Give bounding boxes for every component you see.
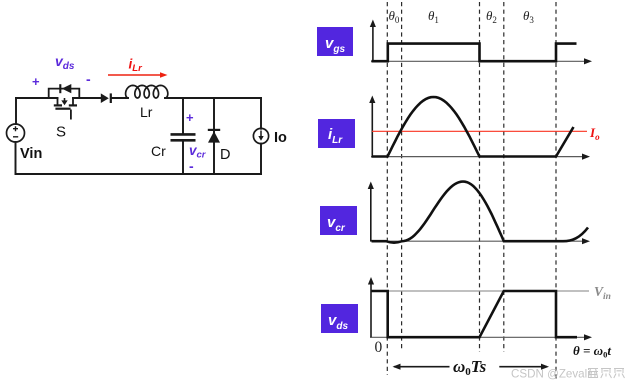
svg-text:-: -	[189, 158, 194, 174]
omega0 Ts left arrow	[393, 364, 450, 370]
MOSFET S source stub	[72, 98, 74, 105]
wire top-left from Vin to MOSFET	[16, 97, 58, 99]
wire inductor to node A	[165, 97, 261, 99]
svg-text:+: +	[186, 110, 194, 125]
svg-text:CSDN @Zevalin: CSDN @Zevalin	[511, 368, 596, 381]
v_ds y-axis arrowhead	[368, 277, 374, 285]
series diode cathode bar	[110, 93, 112, 103]
current source Io arrow	[258, 131, 263, 141]
capacitor Cr plates	[171, 134, 196, 140]
svg-text:θ = ω0t: θ = ω0t	[573, 343, 611, 360]
gray line Vin level	[372, 290, 589, 292]
svg-text:iLr: iLr	[129, 57, 144, 75]
MOSFET S drain stub	[54, 98, 77, 120]
v_cr y-axis arrowhead	[368, 182, 374, 190]
red line Io level	[372, 130, 587, 132]
wire current source Io top lead	[260, 98, 262, 129]
wire current source Io bottom lead	[260, 144, 262, 174]
v_cr x-axis	[370, 240, 583, 242]
svg-text:θ1: θ1	[428, 8, 439, 25]
svg-text:θ3: θ3	[523, 8, 534, 25]
v_ds x-axis arrowhead	[584, 334, 592, 340]
watermark CJK glyph blobs	[588, 369, 625, 379]
body diode triangle (points left)	[62, 84, 72, 93]
diode D triangle (points up)	[208, 131, 220, 142]
svg-text:S: S	[56, 124, 66, 141]
series diode triangle	[101, 93, 109, 103]
dashed line 2 (theta0 end)	[401, 2, 403, 351]
v_gs label box	[317, 27, 353, 56]
v_gs y-axis	[372, 26, 374, 61]
v_cr label box	[320, 206, 357, 235]
svg-text:Lr: Lr	[140, 104, 153, 120]
diode D cathode bar	[208, 129, 220, 131]
MOSFET body diode branch wire	[49, 89, 80, 98]
svg-text:θ0: θ0	[389, 8, 400, 25]
current source Io circle	[253, 128, 268, 143]
wire MOSFET to series diode	[73, 97, 101, 99]
svg-text:Vin: Vin	[594, 284, 611, 302]
svg-text:θ2: θ2	[486, 8, 497, 25]
wire diode D branch vertical	[213, 98, 215, 174]
svg-text:-: -	[86, 71, 91, 87]
v_gs y-axis arrowhead	[370, 20, 376, 28]
v_ds y-axis	[370, 284, 372, 338]
v_gs waveform	[372, 44, 577, 62]
v_cr x-axis arrowhead	[582, 238, 590, 244]
MOSFET S drain foot	[54, 104, 62, 106]
i_Lr label box	[318, 119, 355, 148]
dashed line 5 (theta3 end)	[555, 2, 557, 380]
i_Lr x-axis	[371, 156, 583, 158]
svg-text:Vin: Vin	[20, 146, 42, 162]
svg-text:Io: Io	[589, 125, 600, 142]
v_ds waveform	[372, 291, 578, 337]
svg-text:vds: vds	[55, 53, 75, 72]
i_Lr y-axis	[371, 102, 373, 157]
body diode cathode bar	[59, 84, 61, 93]
v_cr waveform	[372, 182, 589, 243]
MOSFET S source foot	[69, 104, 77, 106]
svg-text:ω0Ts: ω0Ts	[453, 357, 487, 378]
wire Vin bottom lead	[15, 142, 17, 174]
dashed line 3 (theta1 end)	[479, 2, 481, 352]
v_gs x-axis	[371, 60, 585, 62]
svg-text:Io: Io	[274, 130, 287, 146]
svg-text:0: 0	[375, 339, 383, 356]
voltage source Vin circle	[7, 124, 25, 142]
inductor Lr coil	[126, 85, 168, 98]
omega0 Ts right arrow	[499, 364, 549, 370]
wire left vertical Vin top lead	[15, 98, 17, 124]
svg-text:D: D	[220, 147, 230, 163]
v_ds label box	[321, 304, 358, 333]
i_Lr x-axis arrowhead	[582, 154, 590, 160]
i_Lr y-axis arrowhead	[369, 96, 375, 104]
v_gs x-axis arrowhead	[584, 58, 592, 64]
dashed line 1 (theta0 start)	[386, 2, 388, 375]
v_ds x-axis	[370, 336, 585, 338]
wire capacitor Cr bottom lead	[182, 141, 184, 174]
wire capacitor Cr top lead	[182, 98, 184, 133]
MOSFET S gate plate	[55, 108, 70, 110]
wire series diode to inductor Lr	[111, 97, 128, 99]
svg-text:+: +	[32, 74, 40, 89]
v_cr y-axis	[370, 188, 372, 241]
i_Lr waveform	[372, 97, 574, 157]
MOSFET S gate lead	[70, 110, 72, 120]
red current arrow i_Lr	[108, 72, 168, 78]
svg-text:Cr: Cr	[151, 143, 166, 159]
bottom wire	[16, 173, 262, 175]
dashed line 4 (theta2 end)	[503, 2, 505, 352]
MOSFET S body arrow	[61, 98, 67, 105]
